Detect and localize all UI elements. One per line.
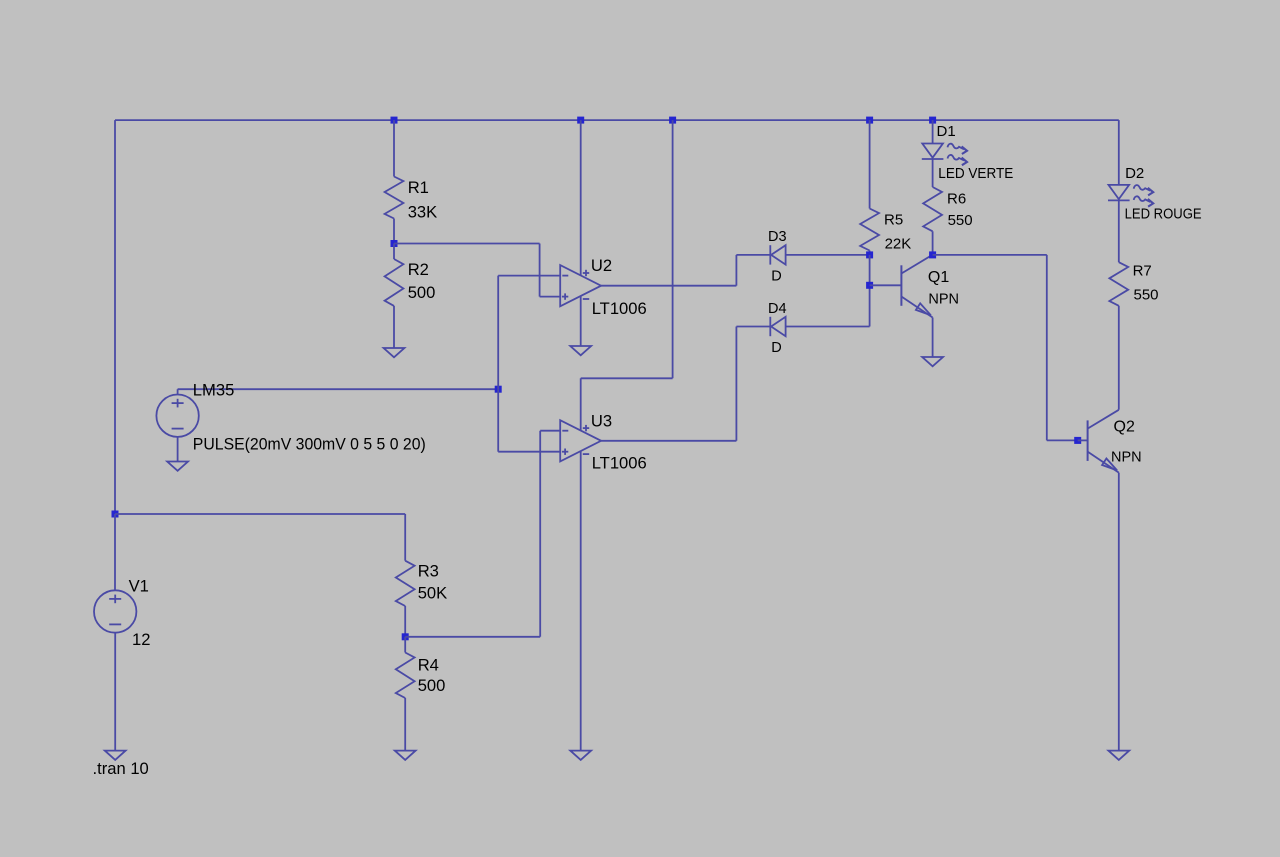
ground R2	[384, 348, 405, 357]
wire base column riser	[869, 285, 871, 326]
wire D1 to R6	[932, 159, 934, 187]
wire Q2 base stub	[1078, 439, 1088, 441]
svg-text:33K: 33K	[408, 203, 438, 222]
svg-text:PULSE(20mV 300mV 0 5 5 0 20): PULSE(20mV 300mV 0 5 5 0 20)	[193, 435, 426, 454]
svg-text:R5: R5	[884, 212, 903, 229]
wire to D3 anode	[736, 254, 770, 256]
wire R4 bottom lead	[404, 698, 406, 751]
wire Q2 emitter lead	[1118, 473, 1120, 751]
wire V1 top lead	[114, 514, 116, 590]
wire U2 noninverting feed vertical	[539, 244, 541, 297]
wire R3 to node	[404, 606, 406, 637]
resistor R6	[923, 187, 942, 231]
wire R1 top lead	[393, 120, 395, 176]
diode D4	[770, 317, 785, 336]
transistor Q2	[1088, 410, 1119, 473]
wire R5 bottom lead	[869, 251, 871, 255]
svg-text:LED ROUGE: LED ROUGE	[1125, 206, 1202, 223]
resistor R7	[1109, 262, 1128, 306]
resistor R4	[396, 653, 415, 699]
node rail R1	[391, 117, 398, 124]
wire R4 top lead	[404, 637, 406, 653]
wire Q2 base horizontal	[1047, 439, 1078, 441]
svg-text:50K: 50K	[418, 584, 448, 603]
ground LM35	[167, 462, 188, 471]
resistor R5	[860, 209, 879, 251]
wire junction down to base node	[869, 255, 871, 285]
svg-text:D: D	[771, 340, 781, 356]
ground Q2	[1108, 751, 1129, 760]
transistor Q1	[901, 255, 932, 318]
wire LM35 output	[178, 388, 499, 390]
svg-text:LED VERTE: LED VERTE	[938, 165, 1013, 182]
svg-text:D4: D4	[768, 301, 787, 317]
ground U2	[570, 346, 591, 355]
voltage source LM35	[156, 395, 198, 437]
wire R6 bottom lead	[932, 231, 934, 255]
resistor R2	[385, 259, 404, 306]
wire R2 top lead	[393, 244, 395, 260]
svg-text:R7: R7	[1133, 263, 1152, 280]
resistor R1	[385, 177, 404, 219]
wire R1 to node	[393, 219, 395, 244]
wire LM35 to U3 noninverting vertical	[497, 389, 499, 452]
LED D2	[1108, 185, 1153, 207]
ground Q1	[922, 357, 943, 366]
wire V1 bottom lead	[114, 633, 116, 751]
wire U3 noninverting input stub	[498, 451, 560, 453]
wire D2 to R7	[1118, 200, 1120, 262]
svg-text:R3: R3	[418, 562, 439, 581]
wire U2 inverting input stub	[498, 275, 560, 277]
op-amp U3	[560, 420, 601, 461]
wire D4 to base column	[786, 326, 870, 328]
svg-text:R2: R2	[408, 260, 429, 279]
wire R7 to Q2 collector	[1118, 306, 1120, 410]
node Q1 base junction	[866, 282, 873, 289]
svg-text:R1: R1	[408, 178, 429, 197]
ground R4	[395, 751, 416, 760]
ground V1	[105, 751, 126, 760]
LED D1	[922, 144, 967, 166]
wire top supply rail	[115, 119, 1119, 121]
resistor R3	[396, 561, 415, 606]
wire LM35 to U2 inverting vertical	[497, 276, 499, 390]
wire U2 noninverting input stub	[540, 296, 561, 298]
wire Q2 base drop	[1046, 255, 1048, 441]
wire LM35 bottom lead	[177, 437, 179, 462]
diode D3	[770, 245, 785, 264]
svg-text:V1: V1	[129, 576, 149, 595]
svg-text:LT1006: LT1006	[592, 453, 647, 472]
op-amp U2	[560, 265, 601, 306]
wire U3 V+ lead	[580, 378, 582, 430]
wire U3 inverting input stub	[540, 430, 560, 432]
wire to D4 anode	[736, 326, 770, 328]
node V1 top junction	[112, 511, 119, 518]
svg-text:22K: 22K	[885, 235, 912, 252]
svg-text:500: 500	[408, 283, 436, 302]
wire R5 top lead	[869, 120, 871, 208]
svg-text:R6: R6	[947, 191, 966, 208]
node rail R5	[866, 117, 873, 124]
wire U2 output riser	[735, 255, 737, 286]
svg-text:LM35: LM35	[193, 380, 235, 399]
svg-text:D: D	[771, 268, 781, 284]
svg-text:U2: U2	[591, 256, 612, 275]
wire U3 output	[601, 440, 736, 442]
wire R2 bottom lead	[393, 306, 395, 348]
node rail U3 supply	[669, 117, 676, 124]
svg-text:R4: R4	[418, 656, 439, 675]
wire U3 supply drop	[672, 120, 674, 378]
wire U2 V- lead	[580, 296, 582, 346]
svg-text:U3: U3	[591, 411, 612, 430]
svg-text:550: 550	[1134, 287, 1159, 304]
svg-text:.tran 10: .tran 10	[93, 759, 149, 778]
svg-text:500: 500	[418, 676, 446, 695]
wire D3 to R5 node	[786, 254, 870, 256]
svg-text:12: 12	[132, 630, 150, 649]
wire U2 output	[601, 285, 736, 287]
node R3-R4 junction	[402, 633, 409, 640]
node rail U2 supply	[577, 117, 584, 124]
node R5-D3 junction	[866, 251, 873, 258]
svg-text:LT1006: LT1006	[592, 299, 647, 318]
wire left supply vertical	[114, 120, 116, 514]
node Q2 base	[1074, 437, 1081, 444]
wire R3 top lead	[404, 514, 406, 561]
node LM35 output junction	[495, 386, 502, 393]
wire LM35 top stub	[177, 389, 179, 394]
wire U3 output riser	[735, 327, 737, 441]
wire divider to U3 column	[405, 636, 540, 638]
svg-text:Q2: Q2	[1114, 419, 1135, 436]
wire U2 V+ lead	[580, 120, 582, 275]
wire U3 V- lead	[580, 451, 582, 750]
svg-text:D2: D2	[1125, 165, 1144, 182]
wire U3 inverting feed vertical	[539, 431, 541, 637]
wire divider to U2 column	[394, 243, 540, 245]
wire D1 top lead	[932, 120, 934, 143]
ground U3	[570, 751, 591, 760]
node R1-R2 junction	[391, 240, 398, 247]
wire V1 junction to R3	[115, 513, 405, 515]
svg-text:D3: D3	[768, 229, 787, 245]
wire Q1 base	[870, 284, 902, 286]
wire U3 supply across	[581, 377, 673, 379]
svg-text:NPN: NPN	[928, 292, 959, 308]
svg-text:550: 550	[948, 212, 973, 229]
wire Q1 emitter lead	[932, 318, 934, 358]
svg-text:Q1: Q1	[928, 269, 949, 286]
wire rail to D2	[1118, 120, 1120, 185]
svg-text:D1: D1	[937, 123, 956, 140]
voltage source V1	[94, 590, 136, 632]
node rail D1	[929, 117, 936, 124]
node Q1 collector junction	[929, 251, 936, 258]
wire collector to Q2 column	[933, 254, 1047, 256]
svg-text:NPN: NPN	[1111, 450, 1142, 466]
